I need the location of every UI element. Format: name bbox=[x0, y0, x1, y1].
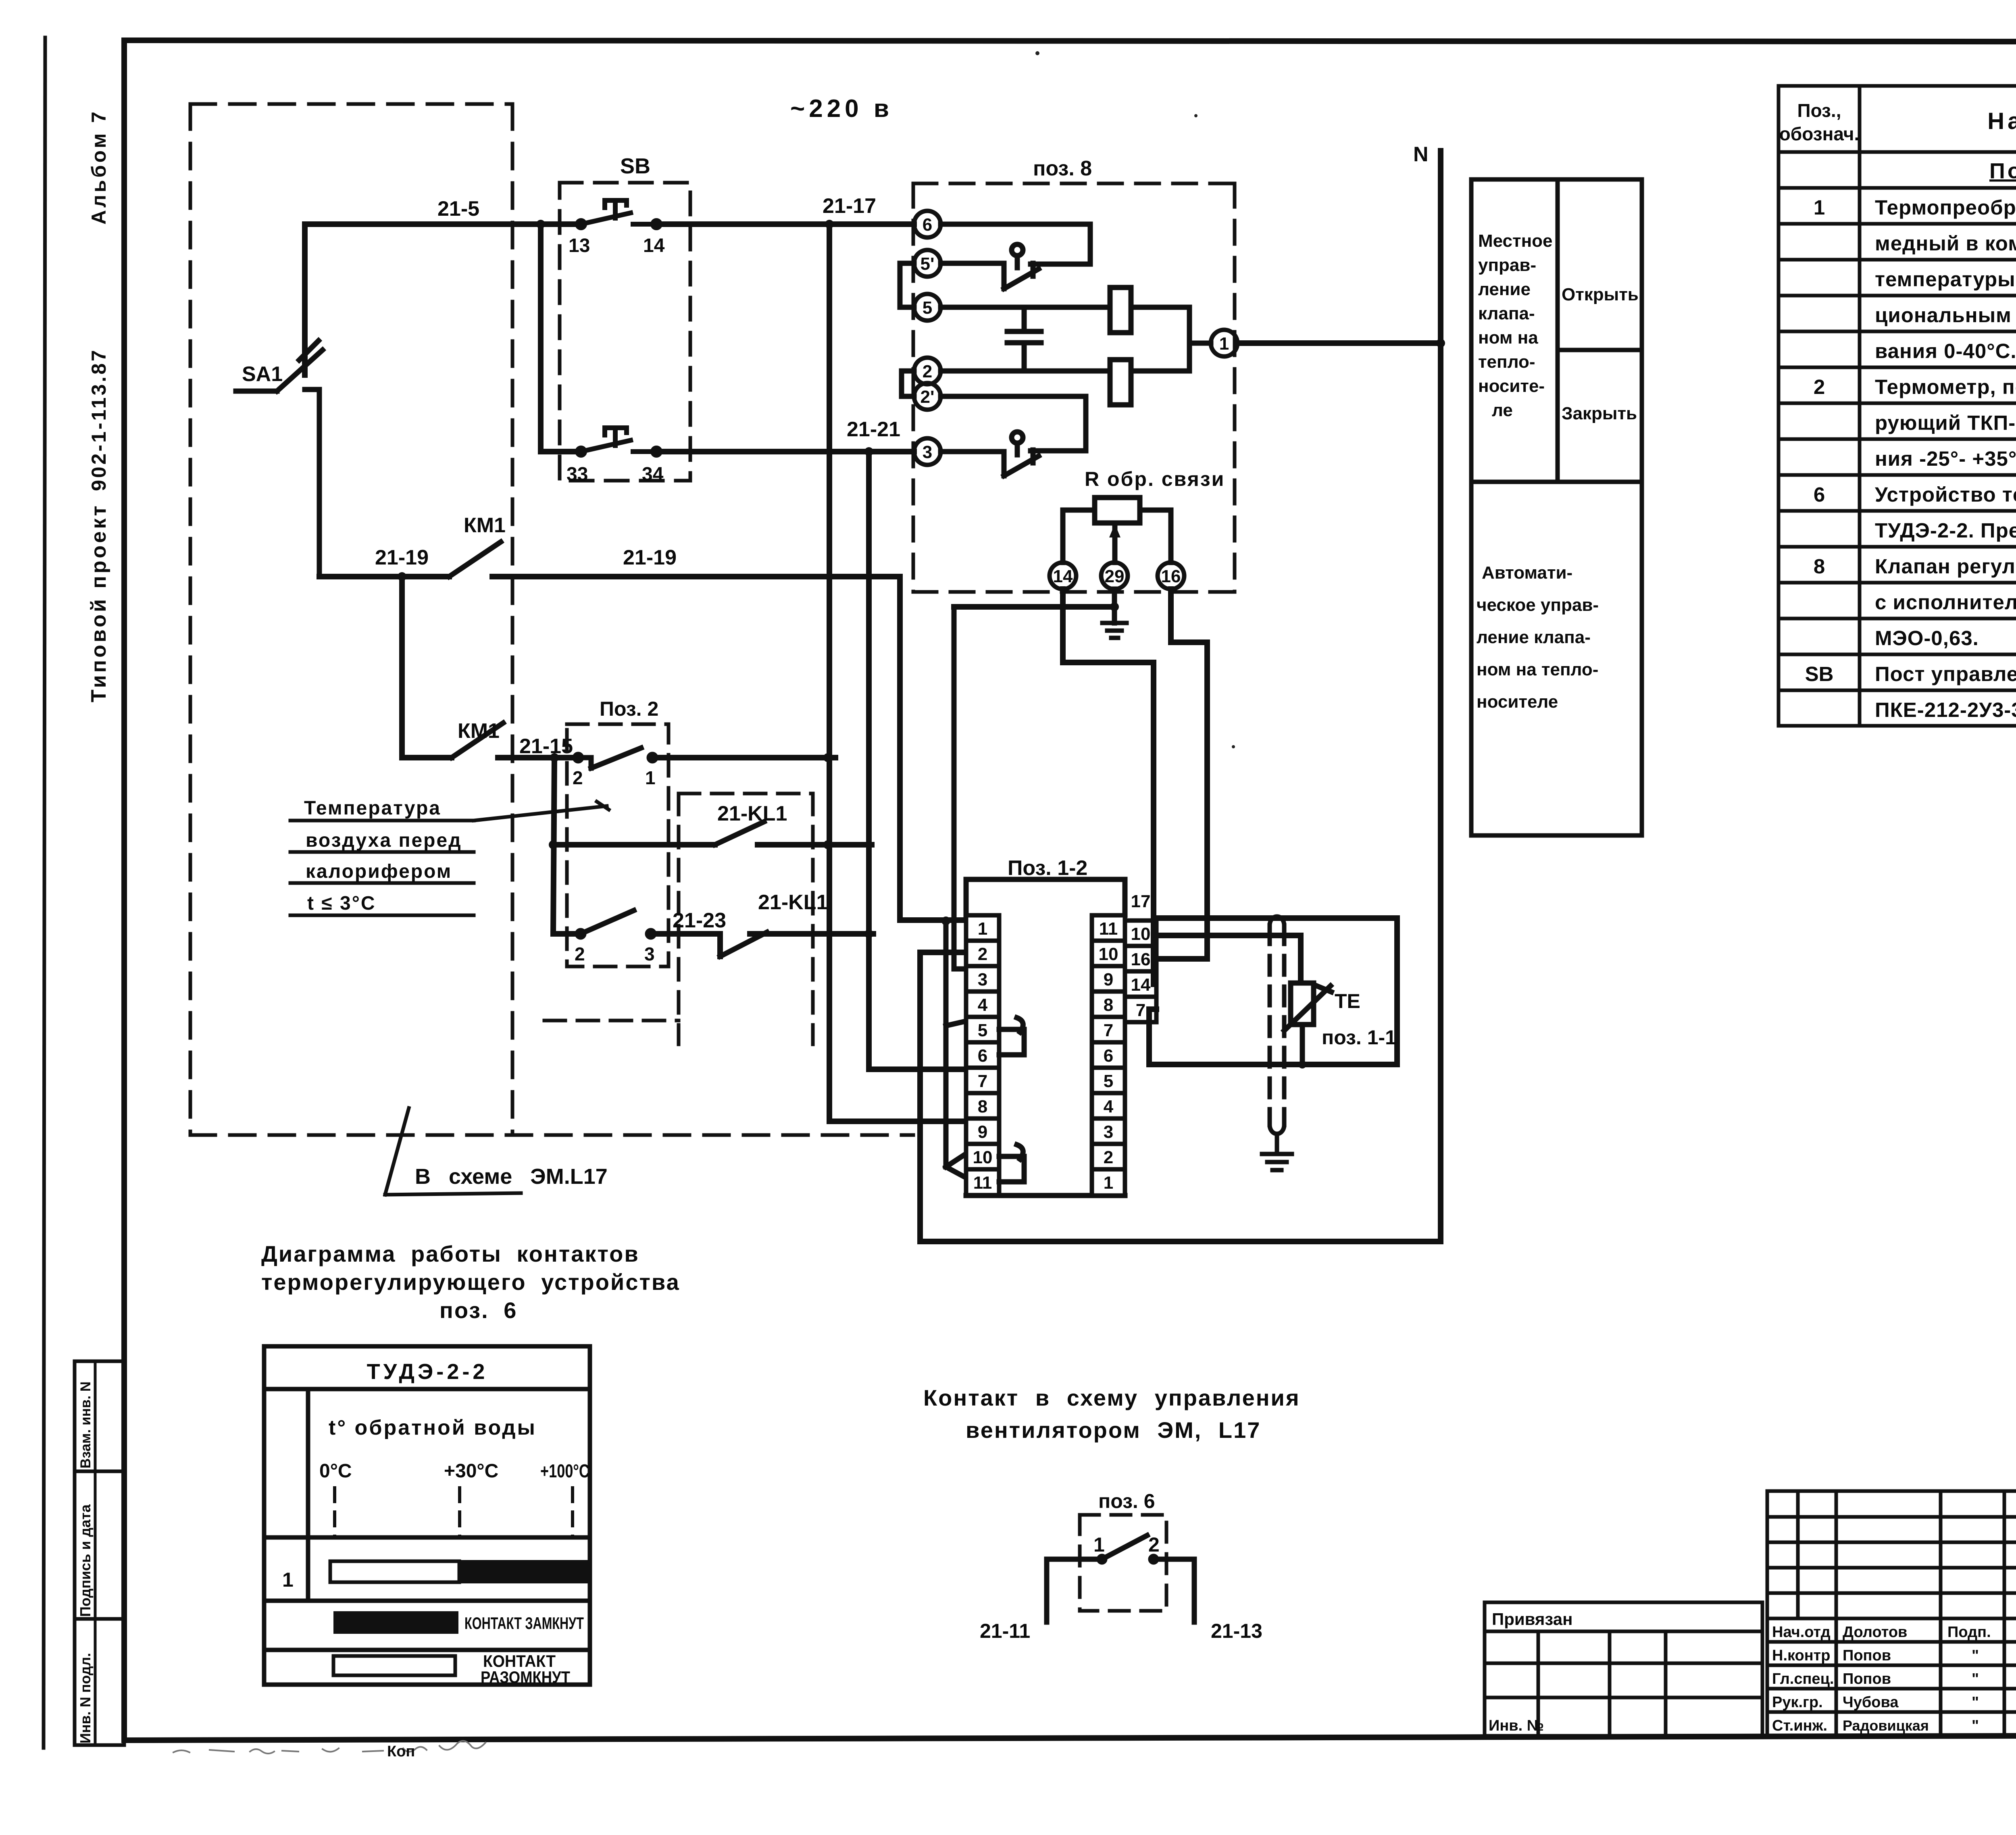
ground under 29 bbox=[1102, 623, 1127, 638]
svg-text:Закрыть: Закрыть bbox=[1562, 404, 1637, 423]
svg-text:8: 8 bbox=[1104, 995, 1113, 1015]
terminal 5 bbox=[914, 294, 941, 321]
svg-text:21-KL1: 21-KL1 bbox=[758, 891, 828, 914]
terminal strip extra (10,16,14,7) bbox=[1125, 921, 1156, 1022]
svg-text:Альбом 7: Альбом 7 bbox=[87, 109, 110, 225]
svg-text:Клапан регулирующий 25ч939нж: Клапан регулирующий 25ч939нж bbox=[1875, 555, 2016, 578]
svg-text:Попов: Попов bbox=[1843, 1670, 1891, 1687]
vertical bus from 21-17 into strip row 9 bbox=[829, 224, 966, 1121]
svg-text:0°С: 0°С bbox=[319, 1460, 352, 1482]
legend open bar bbox=[333, 1656, 455, 1675]
svg-text:поз. 1-1: поз. 1-1 bbox=[1322, 1026, 1396, 1049]
dashed box поз. 6 bbox=[1080, 1515, 1166, 1611]
svg-text:Попов: Попов bbox=[1843, 1647, 1891, 1664]
text: Диаграмма работы контактов bbox=[261, 1241, 680, 1323]
svg-text:9: 9 bbox=[1104, 970, 1113, 989]
big dashed enclosure (SA1 group, В схеме ЭМ.L17) bbox=[190, 104, 913, 1135]
fan bus into strip rows 5,10,11 bbox=[943, 921, 949, 1167]
svg-text:Долотов: Долотов bbox=[1843, 1624, 1907, 1641]
svg-text:Нач.отд: Нач.отд bbox=[1772, 1624, 1831, 1641]
probe sheath dashed capsule bbox=[1270, 925, 1284, 1125]
contact KM1 upper bbox=[449, 542, 501, 577]
contact KM1 lower bbox=[452, 723, 503, 758]
svg-text:носителе: носителе bbox=[1477, 692, 1558, 712]
margin rotated text: 902-1-113.87 bbox=[87, 348, 110, 491]
enclosure top bar Поз.1-2 bbox=[966, 879, 1125, 915]
wire 21-23 row with contact 21-KL1 lower bbox=[553, 934, 873, 956]
node N vertical bbox=[1438, 151, 1443, 1241]
svg-text:калорифером: калорифером bbox=[306, 861, 452, 882]
svg-text:ческое управ-: ческое управ- bbox=[1477, 595, 1599, 615]
title block: Привязан box bbox=[1485, 1602, 1762, 1736]
svg-text:ном на тепло-: ном на тепло- bbox=[1477, 660, 1598, 679]
jumper rows 10-11 bbox=[999, 1145, 1024, 1182]
svg-text:Автомати-: Автомати- bbox=[1482, 563, 1572, 583]
svg-text:ния -25°- +35°С.: ния -25°- +35°С. bbox=[1875, 447, 2016, 470]
svg-text:14: 14 bbox=[1131, 975, 1151, 995]
svg-text:Пост управления кнопочный: Пост управления кнопочный bbox=[1875, 662, 2016, 685]
svg-text:Поз. 2: Поз. 2 bbox=[600, 698, 658, 720]
svg-text:8: 8 bbox=[978, 1097, 987, 1116]
svg-text:13: 13 bbox=[569, 235, 590, 256]
svg-text:": " bbox=[1972, 1670, 1979, 1687]
svg-text:2: 2 bbox=[573, 767, 583, 788]
svg-text:7: 7 bbox=[978, 1071, 987, 1091]
svg-text:температуры электрическим проп: температуры электрическим пропор- bbox=[1875, 268, 2016, 291]
svg-text:Взам. инв. N: Взам. инв. N bbox=[78, 1381, 94, 1468]
svg-text:": " bbox=[1972, 1694, 1979, 1711]
svg-text:3: 3 bbox=[923, 442, 932, 462]
svg-text:34: 34 bbox=[642, 464, 664, 485]
svg-text:1: 1 bbox=[1104, 1173, 1113, 1193]
svg-text:33: 33 bbox=[566, 464, 588, 485]
svg-text:8: 8 bbox=[1814, 555, 1825, 578]
svg-text:Устройство терморегулирующее: Устройство терморегулирующее bbox=[1875, 483, 2016, 506]
svg-text:Диаграмма работы контактов: Диаграмма работы контактов bbox=[261, 1241, 639, 1266]
wire from 29 to ground bbox=[1112, 589, 1117, 623]
contact 21-KL1 upper bbox=[553, 842, 872, 848]
terminal strip left (1-11) bbox=[966, 915, 999, 1196]
text: Контакт в схему управления вентилятором bbox=[923, 1385, 1300, 1443]
svg-text:Инв. №: Инв. № bbox=[1489, 1717, 1544, 1734]
svg-text:ление: ление bbox=[1478, 279, 1531, 299]
svg-text:ном на: ном на bbox=[1478, 328, 1538, 348]
svg-text:2: 2 bbox=[1814, 375, 1825, 398]
svg-text:КМ1: КМ1 bbox=[464, 514, 506, 537]
svg-text:16: 16 bbox=[1161, 567, 1181, 586]
contact SB 33-34 bbox=[577, 428, 660, 455]
handwriting bottom left bbox=[173, 1741, 485, 1754]
text ~220в bbox=[790, 95, 893, 123]
svg-text:Инв. N подл.: Инв. N подл. bbox=[77, 1653, 94, 1743]
svg-text:1: 1 bbox=[1219, 334, 1229, 354]
svg-text:902-1-113.87: 902-1-113.87 bbox=[87, 348, 110, 491]
svg-text:ТЕ: ТЕ bbox=[1335, 990, 1360, 1012]
svg-text:2': 2' bbox=[921, 387, 935, 407]
svg-text:t° обратной воды: t° обратной воды bbox=[329, 1416, 537, 1439]
terminal 5' bbox=[914, 250, 941, 277]
svg-text:с исполнительным механизмом: с исполнительным механизмом bbox=[1875, 591, 2016, 614]
parts table top right bbox=[1779, 86, 2016, 726]
label Поз. 1-2 bbox=[1008, 856, 1087, 880]
svg-text:3: 3 bbox=[644, 944, 655, 964]
svg-text:поз. 6: поз. 6 bbox=[1098, 1490, 1155, 1512]
svg-text:РАЗОМКНУТ: РАЗОМКНУТ bbox=[481, 1668, 570, 1687]
svg-text:4: 4 bbox=[978, 995, 988, 1015]
wire 21-19 upper bbox=[319, 574, 900, 579]
svg-text:10: 10 bbox=[1099, 944, 1118, 964]
resistor R обр. связи bbox=[1085, 468, 1225, 490]
svg-text:Рук.гр.: Рук.гр. bbox=[1772, 1694, 1823, 1711]
svg-text:управ-: управ- bbox=[1478, 255, 1536, 275]
TUDE-2-2 diagram table bbox=[264, 1346, 590, 1685]
wire ground bus to V1 bbox=[954, 604, 1114, 610]
svg-text:Ст.инж.: Ст.инж. bbox=[1772, 1717, 1827, 1734]
svg-text:1: 1 bbox=[645, 767, 656, 788]
wire down to lower KM1 bbox=[399, 577, 405, 758]
svg-text:ПКЕ-212-2У3-3/4" ТУ16-642006-8: ПКЕ-212-2У3-3/4" ТУ16-642006-83 bbox=[1875, 698, 2016, 721]
legend closed bar bbox=[333, 1611, 458, 1634]
svg-text:носите-: носите- bbox=[1478, 376, 1545, 396]
svg-text:29: 29 bbox=[1105, 567, 1125, 586]
svg-text:4: 4 bbox=[1104, 1097, 1114, 1116]
scale dashed ticks bbox=[335, 1488, 573, 1537]
svg-text:5': 5' bbox=[921, 254, 935, 274]
svg-text:": " bbox=[1972, 1717, 1979, 1734]
svg-text:14: 14 bbox=[643, 235, 665, 256]
terminal 6 bbox=[914, 211, 941, 237]
dashed box KL1 relay bbox=[544, 794, 813, 1044]
svg-text:t ≤ 3°С: t ≤ 3°С bbox=[307, 893, 376, 914]
margin rotated text: Типовой проект bbox=[87, 503, 110, 702]
svg-text:циональным ТЭ2П. Пределы регул: циональным ТЭ2П. Пределы регулиро- bbox=[1875, 304, 2016, 327]
wire 14 down to strip bbox=[1063, 589, 1154, 984]
svg-text:21-13: 21-13 bbox=[1211, 1620, 1262, 1642]
terminal 3 bbox=[914, 438, 941, 465]
svg-text:Поз.,: Поз., bbox=[1797, 100, 1841, 121]
state bar row 1 bbox=[330, 1561, 459, 1582]
svg-text:SB: SB bbox=[1805, 662, 1834, 685]
wire cell 10 to thermistor bbox=[1156, 935, 1301, 983]
relay coil (close) bbox=[941, 307, 1211, 405]
terminal 2' bbox=[914, 383, 941, 410]
wire cell 7 to TE bottom bbox=[1149, 1009, 1156, 1064]
TE loop right edge bbox=[1149, 918, 1397, 1064]
strips bottom link bbox=[966, 1193, 1125, 1198]
sidebar label: Инв. N подл. bbox=[77, 1653, 94, 1743]
wire SB lower branch bbox=[541, 226, 577, 452]
terminal 2 bbox=[914, 358, 941, 384]
поз.8 internal wiring top contact (open) bbox=[941, 224, 1090, 289]
svg-text:11: 11 bbox=[973, 1173, 992, 1193]
svg-text:1: 1 bbox=[978, 919, 987, 939]
svg-text:Подп.: Подп. bbox=[1947, 1624, 1991, 1641]
svg-text:КМ1: КМ1 bbox=[458, 719, 500, 743]
svg-text:МЭО-0,63.: МЭО-0,63. bbox=[1875, 627, 1979, 650]
svg-text:Гл.спец.: Гл.спец. bbox=[1772, 1670, 1834, 1687]
contact Поз.2 lower 2-3 bbox=[577, 910, 654, 937]
svg-text:Местное: Местное bbox=[1478, 231, 1553, 251]
svg-text:7: 7 bbox=[1104, 1021, 1113, 1040]
probe ground bbox=[1262, 1134, 1292, 1170]
contact SB 13-14 bbox=[577, 200, 660, 228]
vertical bus from 21-21 into strip row 7 bbox=[869, 452, 966, 1069]
svg-text:2: 2 bbox=[1104, 1148, 1113, 1167]
switch SA1 bbox=[236, 341, 323, 577]
svg-text:6: 6 bbox=[978, 1046, 987, 1066]
svg-text:21-15: 21-15 bbox=[519, 735, 573, 758]
svg-text:21-11: 21-11 bbox=[980, 1620, 1030, 1642]
callout table: Температура воздуха перед калорифером bbox=[290, 802, 609, 915]
contact Поз.2 upper 2-1 bbox=[575, 748, 656, 768]
svg-text:6: 6 bbox=[1814, 483, 1825, 506]
vertical bus V1 from ground bus into strip row 3 bbox=[954, 607, 966, 969]
svg-text:вентилятором ЭМ, L17: вентилятором ЭМ, L17 bbox=[966, 1417, 1261, 1443]
svg-text:N: N bbox=[1413, 143, 1429, 166]
wire 16 down to strip bbox=[1156, 589, 1207, 959]
svg-text:+100°С: +100°С bbox=[540, 1460, 589, 1481]
svg-text:Радовицкая: Радовицкая bbox=[1843, 1717, 1929, 1734]
svg-text:КОНТАКТ ЗАМКНУТ: КОНТАКТ ЗАМКНУТ bbox=[464, 1614, 584, 1633]
svg-text:3: 3 bbox=[1104, 1122, 1113, 1142]
svg-text:клапа-: клапа- bbox=[1478, 304, 1535, 323]
svg-text:21-KL1: 21-KL1 bbox=[717, 802, 787, 825]
svg-text:SB: SB bbox=[620, 154, 650, 178]
svg-text:5: 5 bbox=[1104, 1071, 1113, 1091]
svg-text:обознач.: обознач. bbox=[1779, 123, 1860, 144]
svg-text:ТУДЭ-2-2: ТУДЭ-2-2 bbox=[367, 1360, 488, 1384]
svg-text:воздуха перед: воздуха перед bbox=[306, 830, 462, 851]
jumper rows 5-6 bbox=[999, 1018, 1024, 1055]
margin rotated text: Альбом 7 bbox=[87, 109, 110, 225]
svg-text:+30°С: +30°С bbox=[444, 1460, 498, 1482]
svg-text:2: 2 bbox=[923, 362, 932, 381]
vertical bus from 21-19 into strip row 1 bbox=[900, 577, 966, 920]
svg-text:Привязан: Привязан bbox=[1492, 1610, 1572, 1629]
svg-text:2: 2 bbox=[575, 944, 585, 964]
svg-text:11: 11 bbox=[1099, 919, 1118, 939]
svg-text:21-17: 21-17 bbox=[823, 194, 876, 218]
svg-text:поз. 6: поз. 6 bbox=[439, 1298, 517, 1323]
svg-text:Наименование: Наименование bbox=[1987, 108, 2016, 134]
svg-text:2: 2 bbox=[978, 944, 987, 964]
relay coil (open) bbox=[941, 287, 1189, 333]
svg-text:1: 1 bbox=[1814, 196, 1825, 219]
svg-text:6: 6 bbox=[1104, 1046, 1113, 1066]
svg-text:поз. 8: поз. 8 bbox=[1033, 157, 1092, 180]
sidebar label: Подпись и дата bbox=[77, 1504, 94, 1617]
svg-text:21-23: 21-23 bbox=[673, 909, 726, 932]
svg-text:вания 0-40°С.: вания 0-40°С. bbox=[1875, 340, 2016, 362]
push-button station SB dashed box bbox=[560, 183, 690, 481]
wire 21-15 lower KM1 row bbox=[402, 755, 835, 760]
wire 21-5 top rail bbox=[305, 224, 914, 452]
svg-text:10: 10 bbox=[1131, 924, 1151, 944]
svg-text:": " bbox=[1972, 1647, 1979, 1664]
bracket 5'-5 bbox=[900, 263, 914, 307]
dashed box поз.8 (valve controller) bbox=[913, 183, 1235, 592]
svg-text:Поз. 1-2: Поз. 1-2 bbox=[1008, 856, 1087, 880]
svg-text:Н.контр: Н.контр bbox=[1772, 1647, 1831, 1664]
thermistor TE bbox=[1284, 983, 1331, 1064]
svg-text:R обр. связи: R обр. связи bbox=[1085, 468, 1225, 490]
shield loop from N to strip row 2 bbox=[920, 952, 1441, 1241]
sheet left edge line bbox=[44, 37, 45, 1748]
svg-text:Термопреобразователь сопротивл: Термопреобразователь сопротивления bbox=[1875, 196, 2016, 219]
svg-text:терморегулирующего устройства: терморегулирующего устройства bbox=[261, 1269, 680, 1295]
bracket 2-2' bbox=[902, 371, 914, 396]
wire to KL1 rows bbox=[553, 758, 554, 934]
svg-text:Подпись и дата: Подпись и дата bbox=[77, 1504, 94, 1617]
svg-text:17: 17 bbox=[1131, 891, 1151, 911]
TE loop top wire bbox=[1156, 915, 1397, 921]
svg-text:14: 14 bbox=[1053, 567, 1073, 586]
svg-text:~220 в: ~220 в bbox=[790, 95, 893, 123]
svg-text:Открыть: Открыть bbox=[1562, 285, 1639, 304]
bottom terminals 14 29 16 bbox=[1050, 562, 1184, 589]
svg-text:1: 1 bbox=[1093, 1533, 1105, 1556]
sidebar stamp cells bbox=[75, 1361, 124, 1745]
svg-text:5: 5 bbox=[923, 298, 932, 318]
sidebar label: Взам. инв. N bbox=[78, 1381, 94, 1468]
svg-text:По месту: По месту bbox=[1989, 159, 2016, 183]
svg-text:9: 9 bbox=[978, 1122, 987, 1142]
callout: В схеме ЭМ.L17 bbox=[385, 1108, 409, 1195]
поз.8 internal wiring bottom contact (close) bbox=[941, 396, 1086, 476]
svg-text:Чубова: Чубова bbox=[1843, 1694, 1899, 1711]
svg-text:7: 7 bbox=[1136, 1000, 1145, 1020]
svg-text:21-19: 21-19 bbox=[375, 546, 429, 569]
svg-text:3: 3 bbox=[978, 970, 987, 989]
wire terminal 1 to N bbox=[1237, 340, 1441, 346]
svg-text:SA1: SA1 bbox=[242, 362, 283, 386]
dashed box Поз. 2 bbox=[567, 724, 669, 966]
svg-text:В схеме ЭМ.L17: В схеме ЭМ.L17 bbox=[415, 1164, 608, 1189]
contact SQ поз.6 bbox=[1047, 1535, 1194, 1622]
svg-text:10: 10 bbox=[973, 1148, 993, 1167]
terminal 1 right bbox=[1211, 330, 1237, 356]
svg-text:ление клапа-: ление клапа- bbox=[1477, 627, 1591, 647]
box Местное/Автоматическое управление bbox=[1471, 179, 1642, 835]
svg-text:21-19: 21-19 bbox=[623, 546, 677, 569]
svg-text:ТУДЭ-2-2. Пределы измерения 0-: ТУДЭ-2-2. Пределы измерения 0-100°С bbox=[1875, 519, 2016, 542]
svg-text:1: 1 bbox=[282, 1568, 294, 1591]
svg-text:16: 16 bbox=[1131, 950, 1151, 969]
svg-text:ле: ле bbox=[1492, 400, 1513, 420]
svg-text:Термометр, показывающий сигнал: Термометр, показывающий сигнализи- bbox=[1875, 375, 2016, 398]
capacitor bbox=[1007, 307, 1041, 371]
title block: main stamp bbox=[1767, 1491, 2016, 1736]
svg-text:Температура: Температура bbox=[304, 798, 441, 819]
terminal strip right (11-1) bbox=[1092, 915, 1125, 1196]
svg-text:Контакт в схему управления: Контакт в схему управления bbox=[923, 1385, 1300, 1410]
svg-text:21-21: 21-21 bbox=[847, 418, 900, 441]
svg-text:тепло-: тепло- bbox=[1478, 352, 1535, 372]
svg-text:Коп: Коп bbox=[387, 1743, 415, 1760]
svg-text:21-5: 21-5 bbox=[437, 197, 479, 221]
svg-text:медный в комплекте с регулятор: медный в комплекте с регулятором bbox=[1875, 232, 2016, 255]
svg-text:Типовой проект: Типовой проект bbox=[87, 503, 110, 702]
svg-text:рующий ТКП-100Эк. Пределы изме: рующий ТКП-100Эк. Пределы измере- bbox=[1875, 411, 2016, 434]
svg-text:5: 5 bbox=[978, 1021, 987, 1040]
svg-text:6: 6 bbox=[923, 215, 932, 235]
